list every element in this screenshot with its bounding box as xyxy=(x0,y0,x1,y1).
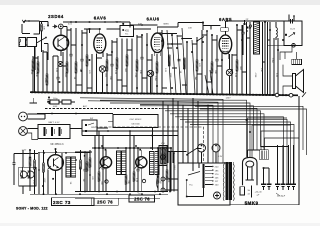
svg-text:6AV6: 6AV6 xyxy=(94,15,107,20)
node row xyxy=(92,147,172,149)
dial box xyxy=(108,115,158,151)
label 6AV6 xyxy=(94,15,107,20)
bus terminal B xyxy=(289,93,293,97)
svg-text:2SC 76: 2SC 76 xyxy=(97,199,113,204)
output transformer T3 xyxy=(292,59,302,64)
antenna coil T1 xyxy=(19,38,37,47)
svg-text:17B: 17B xyxy=(261,147,265,149)
capacitor C30 C31 xyxy=(254,168,271,196)
component value labels xyxy=(30,58,277,83)
svg-text:2SC 76: 2SC 76 xyxy=(134,197,150,202)
svg-text:MF 455KC-6: MF 455KC-6 xyxy=(50,144,64,146)
tone network box xyxy=(284,21,302,46)
speaker SP1 xyxy=(283,70,304,93)
tube 6AU6 xyxy=(134,27,164,56)
svg-text:1M: 1M xyxy=(194,77,196,80)
svg-text:140V: 140V xyxy=(225,98,231,100)
svg-text:100P: 100P xyxy=(169,73,171,78)
fuse F1 xyxy=(214,192,221,199)
ground bus xyxy=(30,91,298,96)
power transformer T4 xyxy=(218,156,234,201)
AC dashed line xyxy=(95,127,204,163)
svg-text:40+40µF: 40+40µF xyxy=(277,196,286,198)
wire xyxy=(40,21,221,56)
svg-text:+40+40: +40+40 xyxy=(254,191,262,193)
svg-text:BATT. 4.5V: BATT. 4.5V xyxy=(49,121,60,124)
svg-text:2.2M: 2.2M xyxy=(271,58,273,63)
label 5MK9 xyxy=(245,200,259,205)
label IFT xyxy=(50,144,64,146)
transistor 2SC73 xyxy=(38,148,91,194)
label 2SC73 box xyxy=(52,198,95,206)
svg-text:47K: 47K xyxy=(198,63,200,67)
capacitor C14 xyxy=(48,97,59,104)
svg-text:MAX: MAX xyxy=(173,166,176,171)
band switch S1a xyxy=(37,37,47,43)
svg-text:470K: 470K xyxy=(134,73,136,78)
node xyxy=(84,28,100,33)
jack J1 xyxy=(19,112,45,121)
heater 6AU6 xyxy=(147,70,153,93)
svg-text:2SC 73: 2SC 73 xyxy=(53,200,71,205)
wire IF strip verticals xyxy=(29,131,171,194)
svg-text:47K: 47K xyxy=(88,70,90,74)
wire xyxy=(44,44,48,61)
svg-text:1M: 1M xyxy=(82,179,84,182)
node xyxy=(244,23,252,29)
label 2SD64 xyxy=(48,14,64,19)
resistor xyxy=(40,24,44,31)
power box xyxy=(178,163,230,205)
battery BT1 xyxy=(38,121,70,139)
wire xyxy=(38,151,92,154)
IF transformer IFT1 xyxy=(66,157,76,177)
varistor xyxy=(285,28,296,37)
trimmer capacitor xyxy=(241,25,244,55)
wire plate 6AR5 xyxy=(227,20,284,22)
wire xyxy=(23,150,30,194)
wire xyxy=(35,47,36,93)
svg-text:530 1600: 530 1600 xyxy=(131,124,140,126)
choke xyxy=(260,147,289,160)
ground xyxy=(30,98,38,103)
svg-text:2.2M: 2.2M xyxy=(154,76,156,81)
wire rectifier feeds xyxy=(195,96,307,157)
lamp P1 xyxy=(198,144,206,163)
transistor 2SC76 second xyxy=(135,145,152,191)
wire bottom rails xyxy=(30,191,168,199)
oscillator coil T2 xyxy=(254,22,260,54)
jack J2 xyxy=(19,127,38,140)
wire bottom return xyxy=(230,145,299,205)
IF transformer IFT3 xyxy=(117,151,127,175)
svg-text:6AU6: 6AU6 xyxy=(147,16,160,21)
antenna AN1 xyxy=(22,20,40,34)
svg-text:33K: 33K xyxy=(109,76,111,80)
label 2SC76 second xyxy=(129,194,155,202)
diode D2 D3 box xyxy=(19,167,36,186)
wire xyxy=(169,151,176,192)
tube 5MK9 xyxy=(243,157,258,185)
lamp P2 xyxy=(212,144,220,163)
svg-text:470K: 470K xyxy=(30,70,32,75)
pilot lamp P3 xyxy=(160,155,165,160)
svg-text:100P: 100P xyxy=(43,178,45,183)
svg-text:455KC: 455KC xyxy=(115,21,122,23)
switch S2 xyxy=(162,20,251,45)
wire xyxy=(282,65,284,96)
coupling coil xyxy=(276,22,277,40)
svg-text:SW: SW xyxy=(90,118,93,120)
bus terminal A xyxy=(275,93,279,97)
svg-text:470K: 470K xyxy=(254,73,256,78)
svg-text:100P: 100P xyxy=(64,73,66,78)
AVC line xyxy=(45,105,160,109)
svg-text:o.5V: o.5V xyxy=(22,150,27,152)
svg-text:6.3V: 6.3V xyxy=(218,156,223,158)
svg-text:2.2M: 2.2M xyxy=(44,78,46,83)
wire B+ loom xyxy=(100,100,294,183)
wire xyxy=(37,113,113,115)
diode D4 xyxy=(58,61,82,71)
wire xyxy=(248,150,260,157)
switch S4 xyxy=(186,163,204,197)
switch S3 xyxy=(168,149,202,156)
label 2SC76 first xyxy=(92,198,119,205)
tube 6AR5 xyxy=(219,21,232,59)
voltage selector xyxy=(204,164,220,188)
svg-text:10K: 10K xyxy=(139,70,141,74)
filament winding xyxy=(240,187,251,196)
svg-text:AVC: AVC xyxy=(83,105,88,108)
svg-text:Fus: Fus xyxy=(189,185,192,187)
tube 6AV6 xyxy=(94,29,106,57)
svg-text:470K: 470K xyxy=(167,178,169,183)
svg-text:10K: 10K xyxy=(188,28,192,30)
svg-text:100K: 100K xyxy=(53,106,58,108)
resistor network xyxy=(47,100,75,108)
wire verticals to bus xyxy=(32,22,278,95)
heater 6AR5 xyxy=(226,54,232,95)
transistor 2SD64 xyxy=(53,35,68,50)
svg-text:MW: MW xyxy=(91,127,95,129)
value labels IF strip xyxy=(32,176,169,185)
svg-text:2SD64: 2SD64 xyxy=(48,14,64,19)
wire xyxy=(268,44,285,46)
IF transformer IFT4 xyxy=(150,152,160,175)
AC plug xyxy=(157,176,179,192)
wire power feeds xyxy=(163,98,208,163)
svg-text:40K: 40K xyxy=(43,26,45,30)
volume control VR1 xyxy=(159,143,167,166)
label 6AR5 xyxy=(219,17,232,22)
transistor 2SC76 first xyxy=(100,145,119,191)
wire supply rails xyxy=(80,98,231,164)
heater 6AV6 xyxy=(99,66,105,93)
junction nodes xyxy=(29,20,284,187)
IF transformer IFT2 xyxy=(107,23,134,37)
svg-text:50P: 50P xyxy=(138,23,142,25)
svg-text:KC: KC xyxy=(125,34,128,36)
label 6AU6 xyxy=(147,16,160,21)
wire xyxy=(70,127,108,130)
wire plate 6AU6 xyxy=(157,22,204,30)
svg-text:10K: 10K xyxy=(35,73,37,77)
capacitor C20 xyxy=(290,19,292,23)
svg-text:SONY - MOD. 122: SONY - MOD. 122 xyxy=(16,206,48,210)
svg-text:6BE6: 6BE6 xyxy=(163,23,169,25)
wire heater rails xyxy=(82,130,178,136)
wire xyxy=(280,45,297,60)
svg-text:455: 455 xyxy=(125,30,130,33)
diode D1 xyxy=(53,24,64,29)
top band labels xyxy=(68,19,249,30)
capacitor C32-C35 xyxy=(275,145,296,198)
svg-text:OSC 455KC: OSC 455KC xyxy=(129,119,141,121)
switch box S1b xyxy=(82,118,97,135)
jack J3 xyxy=(289,15,295,48)
wire interconnects xyxy=(33,30,270,88)
title SONY MOD xyxy=(16,206,48,210)
wire stub xyxy=(302,92,306,97)
svg-text:1123: 1123 xyxy=(290,28,295,30)
svg-text:33K: 33K xyxy=(214,70,216,74)
svg-text:10K: 10K xyxy=(260,68,262,72)
wire xyxy=(41,21,43,52)
wire slanted feeds xyxy=(167,28,213,94)
label ANT xyxy=(13,150,39,185)
